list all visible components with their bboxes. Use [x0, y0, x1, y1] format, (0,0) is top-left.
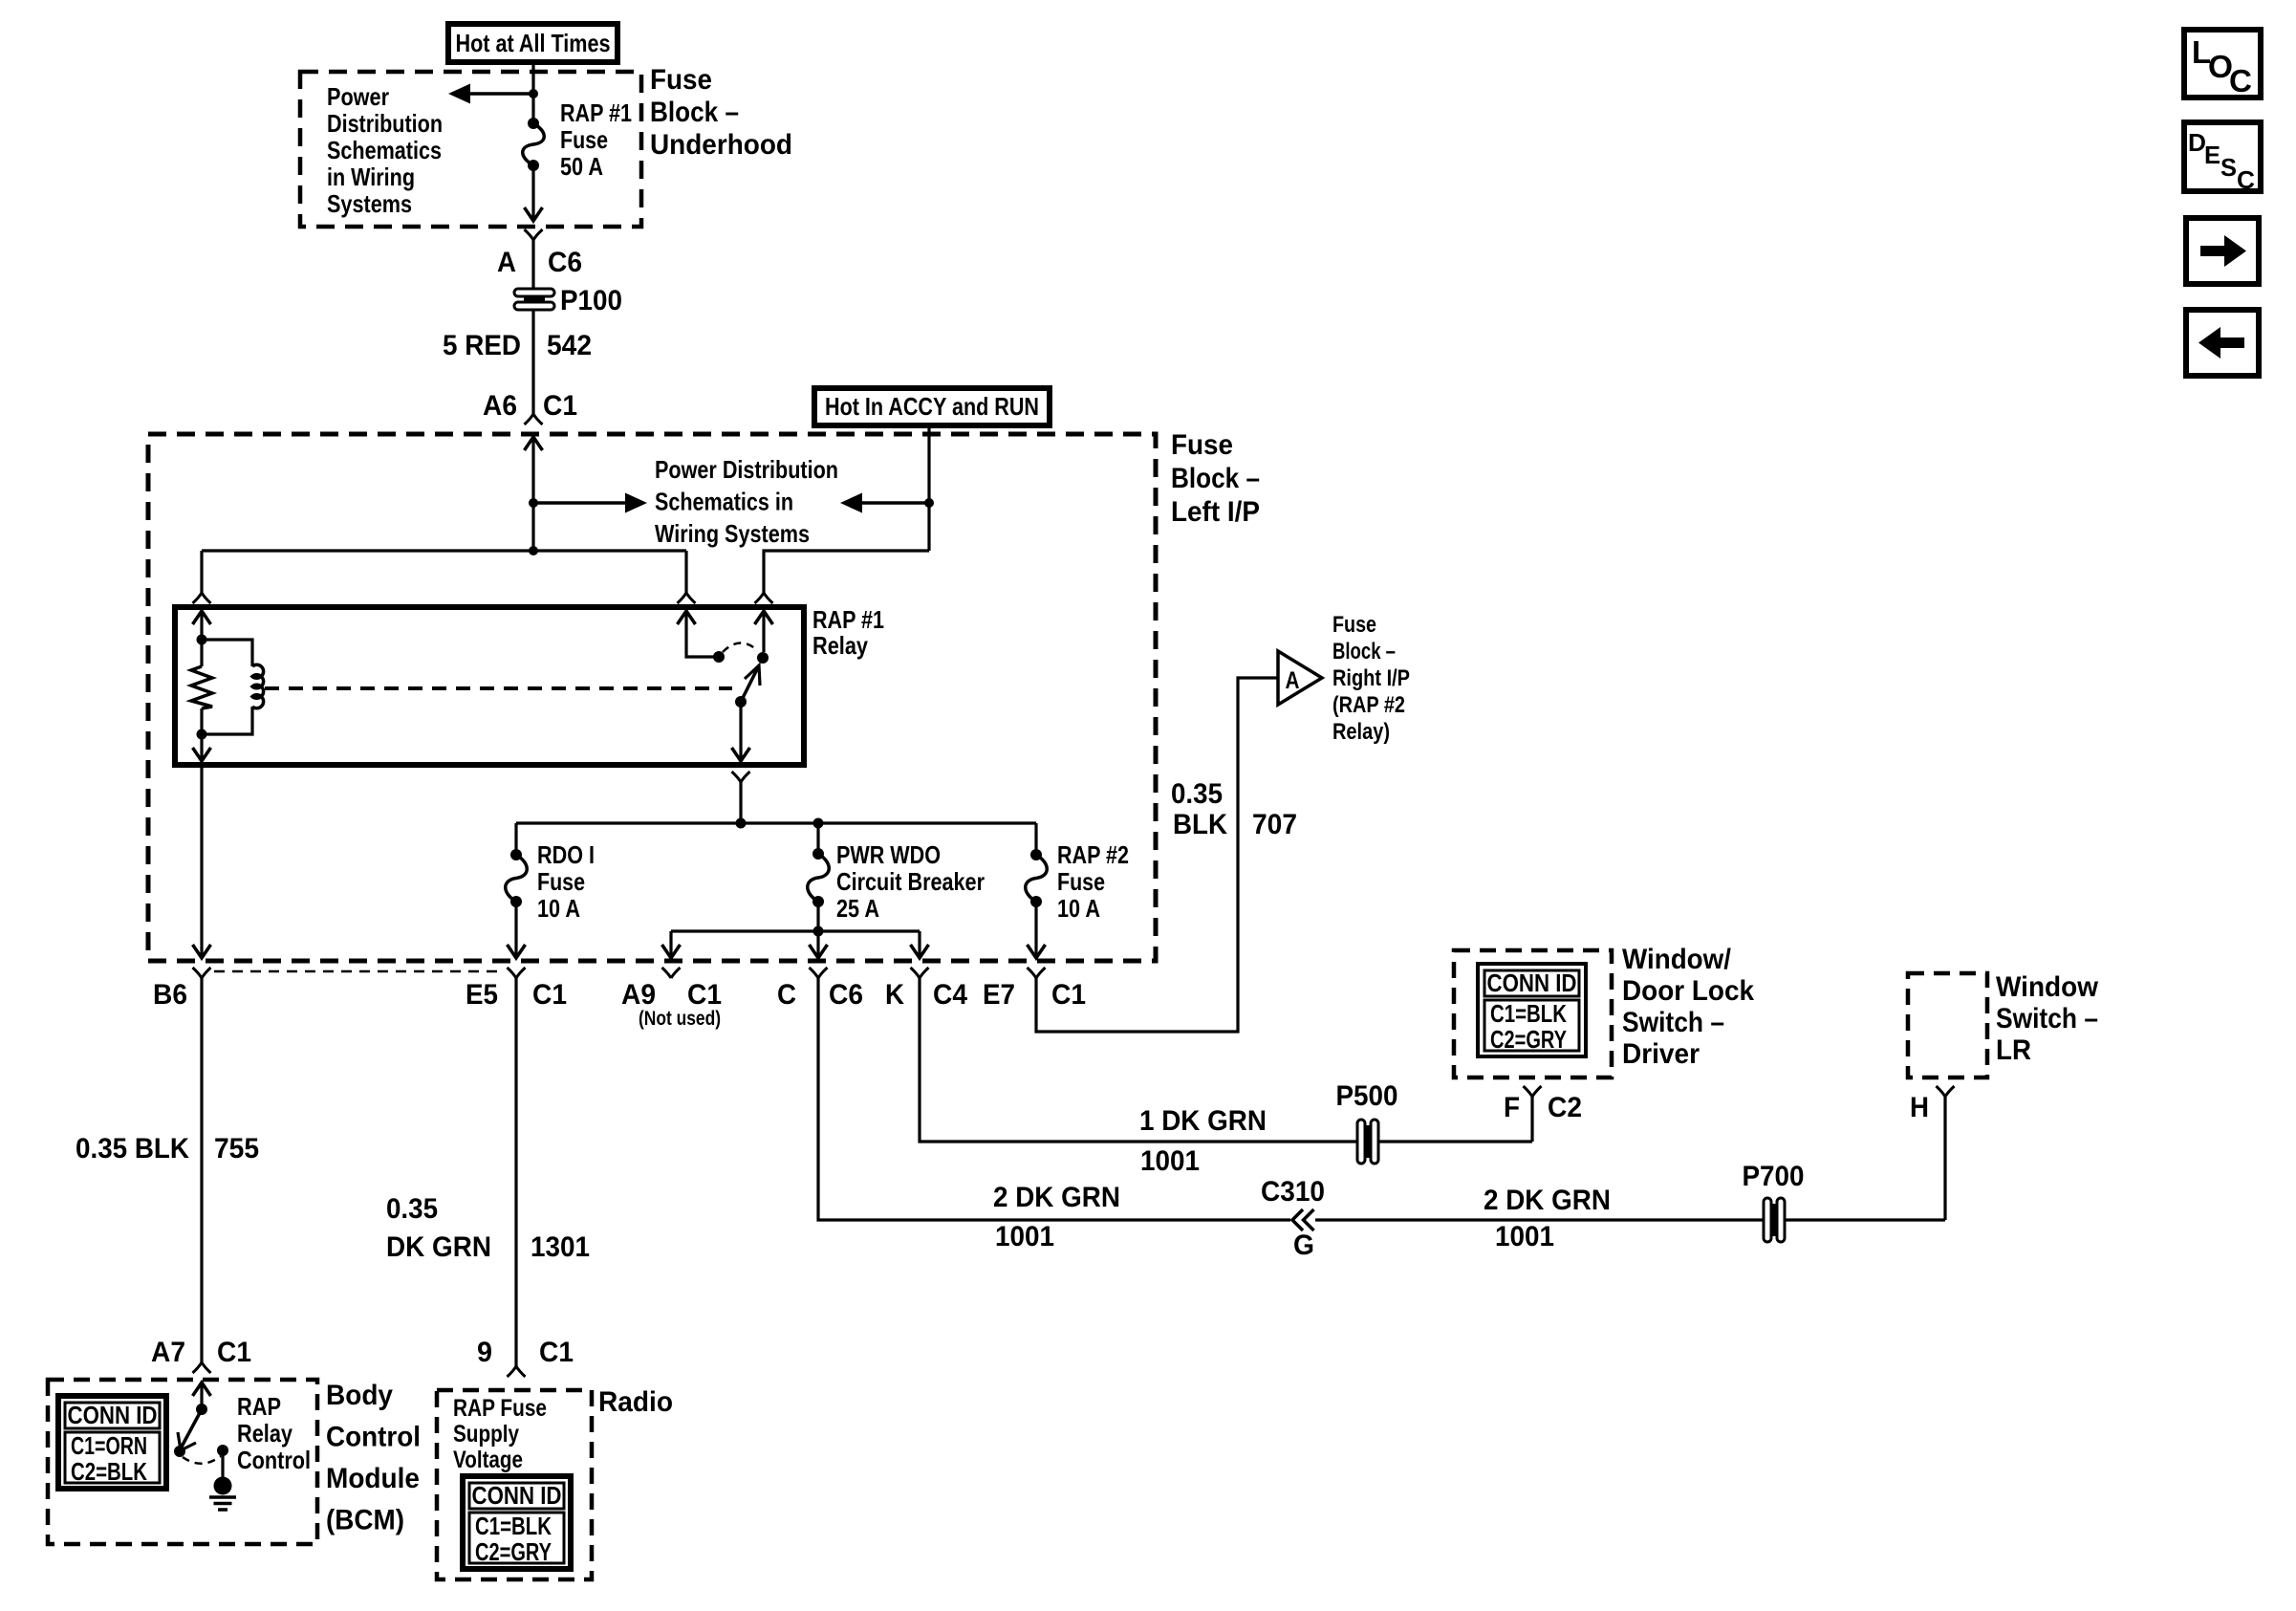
svg-text:P100: P100: [560, 285, 622, 316]
svg-text:A: A: [1286, 667, 1300, 694]
wire: A9 drop: [669, 931, 672, 957]
svg-text:Block –: Block –: [650, 97, 739, 128]
junction node breaker output tee: [813, 926, 824, 937]
svg-text:0.35: 0.35: [386, 1193, 438, 1225]
svg-text:C1: C1: [543, 390, 577, 422]
wire: fuse feed bus: [516, 821, 1036, 824]
connector fork K: [911, 968, 929, 978]
svg-text:A: A: [497, 247, 516, 278]
wire: left drop to relay coil: [200, 551, 203, 593]
svg-text:C: C: [2229, 63, 2252, 98]
connector fork C: [810, 968, 828, 978]
svg-text:Fuse: Fuse: [537, 867, 585, 896]
arrow down at K exit: [911, 945, 929, 958]
svg-text:Body: Body: [326, 1380, 393, 1411]
wire: ACCY horizontal to relay contact: [764, 551, 929, 593]
svg-text:Voltage: Voltage: [453, 1447, 523, 1473]
nav icon LOC: [2184, 30, 2261, 98]
radio dashed box: [437, 1390, 592, 1579]
fuse block underhood dashed box: [300, 72, 641, 227]
svg-text:DK GRN: DK GRN: [386, 1231, 491, 1263]
svg-text:C2=BLK: C2=BLK: [71, 1457, 147, 1486]
svg-text:Supply: Supply: [453, 1421, 519, 1448]
connector fork H below LR switch: [1937, 1086, 1955, 1097]
power label box: Hot at All Times: [448, 24, 617, 62]
svg-text:C1: C1: [1051, 979, 1086, 1011]
svg-text:K: K: [885, 979, 904, 1011]
svg-text:Fuse: Fuse: [650, 64, 712, 96]
wire: drop to relay common: [684, 551, 687, 593]
wire: C/C6 to C310 (2 DK GRN 1001): [818, 978, 1290, 1220]
svg-text:CONN ID: CONN ID: [472, 1481, 562, 1510]
svg-text:Schematics in: Schematics in: [655, 488, 793, 516]
wire: breaker output: [816, 902, 819, 957]
connector fork B6: [193, 968, 211, 978]
svg-text:C: C: [777, 979, 796, 1011]
wire: B6 drop from relay: [200, 765, 203, 957]
relay coil (inductor): [202, 640, 252, 666]
svg-text:Fuse: Fuse: [1332, 612, 1376, 638]
svg-text:Radio: Radio: [598, 1386, 673, 1418]
svg-text:CONN ID: CONN ID: [68, 1401, 158, 1429]
ground symbol: [214, 1477, 232, 1495]
svg-text:2 DK GRN: 2 DK GRN: [993, 1182, 1120, 1213]
arrow down at underhood box exit: [525, 207, 543, 221]
svg-text:Block –: Block –: [1332, 639, 1396, 664]
svg-text:Fuse: Fuse: [1171, 429, 1233, 461]
BCM CONN ID table: [58, 1396, 166, 1489]
svg-text:in Wiring: in Wiring: [327, 163, 415, 191]
wire: ACCY feed down from label box: [927, 425, 930, 551]
svg-text:707: 707: [1252, 809, 1297, 840]
connector fork A7/C1 into BCM: [193, 1362, 211, 1373]
svg-text:Wiring Systems: Wiring Systems: [655, 519, 810, 548]
arrow up inside BCM at A7: [193, 1382, 211, 1396]
svg-text:Window/: Window/: [1622, 944, 1732, 975]
svg-text:Right I/P: Right I/P: [1332, 665, 1410, 691]
svg-text:Power: Power: [327, 82, 389, 111]
wire: K drop: [918, 931, 921, 957]
arrow up into left IP box at A6: [525, 437, 543, 450]
wire: RDO I fuse output: [514, 902, 517, 957]
svg-text:C: C: [2237, 165, 2255, 194]
radio CONN ID table: [463, 1476, 571, 1569]
svg-text:C1: C1: [687, 979, 722, 1011]
wire: RAP #2 fuse output: [1034, 902, 1037, 957]
svg-text:5 RED: 5 RED: [443, 330, 521, 361]
svg-text:CONN ID: CONN ID: [1487, 969, 1577, 997]
circuit breaker PWR WDO 25A: [816, 823, 819, 854]
connector fork A9 (not used): [662, 968, 681, 978]
fuse RAP #1 50A (underhood): [528, 118, 539, 129]
svg-text:A7: A7: [151, 1337, 185, 1368]
relay coil-top junction: [197, 635, 207, 645]
svg-text:RAP #1: RAP #1: [560, 98, 632, 127]
svg-text:Switch –: Switch –: [1622, 1007, 1724, 1038]
svg-text:C310: C310: [1261, 1176, 1325, 1208]
svg-text:Block –: Block –: [1171, 463, 1260, 494]
wire: K/C4 to driver switch (1 DK GRN 1001): [920, 978, 1356, 1142]
off-page triangle connector A: [1278, 651, 1322, 705]
svg-text:(BCM): (BCM): [326, 1505, 404, 1536]
junction node at feed tee: [529, 546, 538, 555]
nav icon back arrow: [2186, 310, 2259, 376]
fork into relay at coil feed: [193, 593, 211, 603]
svg-text:Left I/P: Left I/P: [1171, 496, 1260, 528]
fuse RDO I 10A: [510, 849, 522, 860]
fork into relay at NO contact: [755, 593, 773, 603]
svg-text:C2: C2: [1548, 1092, 1582, 1123]
svg-text:Module: Module: [326, 1463, 420, 1494]
svg-text:2 DK GRN: 2 DK GRN: [1484, 1185, 1611, 1216]
svg-text:10 A: 10 A: [537, 894, 580, 923]
wire: 0.35 BLK 707 from E7 to right IP: [1036, 678, 1277, 1032]
svg-text:Systems: Systems: [327, 189, 412, 218]
svg-text:C2=GRY: C2=GRY: [1490, 1025, 1567, 1054]
svg-text:1001: 1001: [1495, 1221, 1554, 1252]
relay resistor: [200, 640, 203, 666]
svg-text:BLK: BLK: [1173, 809, 1227, 840]
svg-text:1001: 1001: [1140, 1145, 1200, 1177]
svg-text:755: 755: [214, 1133, 259, 1165]
wire: horizontal feed bus to relay: [202, 549, 686, 552]
svg-text:E7: E7: [983, 979, 1015, 1011]
svg-text:Schematics: Schematics: [327, 136, 442, 164]
arrow left to power distribution schematics: [856, 501, 929, 505]
nav icon forward arrow: [2186, 218, 2259, 284]
BCM switch arm (RAP relay control driver): [181, 1409, 202, 1448]
svg-text:C6: C6: [829, 979, 863, 1011]
svg-text:C4: C4: [933, 979, 967, 1011]
wire: 0.35 DK GRN 1301 to radio: [514, 978, 517, 1366]
svg-text:B6: B6: [153, 979, 187, 1011]
svg-text:LR: LR: [1996, 1034, 2031, 1066]
svg-text:Switch –: Switch –: [1996, 1003, 2098, 1034]
svg-text:P500: P500: [1336, 1080, 1398, 1112]
same-connector dashed link B6 to E5: [214, 970, 503, 973]
wire: battery feed into underhood box: [531, 62, 534, 123]
wire: fuse output down: [531, 165, 534, 220]
svg-text:A9: A9: [621, 979, 656, 1011]
connector fork A6/C1 into left IP box: [525, 414, 543, 425]
arrow right to power distribution schematics: [533, 501, 631, 505]
arrow up inside relay (NC pin): [678, 611, 696, 624]
svg-text:C1: C1: [217, 1337, 251, 1368]
svg-text:(Not used): (Not used): [639, 1008, 721, 1030]
connector fork A/C6 below underhood box: [525, 229, 543, 240]
svg-text:E: E: [2204, 141, 2220, 169]
fork below relay output: [732, 772, 750, 782]
svg-text:RAP Fuse: RAP Fuse: [453, 1395, 547, 1422]
nav icon DESC: [2184, 122, 2261, 191]
arrow down at E7 exit: [1028, 945, 1046, 958]
svg-text:C1: C1: [539, 1337, 574, 1368]
wire: relay output down: [739, 702, 742, 761]
junction node: [529, 89, 538, 98]
svg-text:C1=BLK: C1=BLK: [1490, 999, 1567, 1028]
svg-text:RDO I: RDO I: [537, 840, 595, 869]
svg-text:C1=ORN: C1=ORN: [71, 1431, 147, 1460]
svg-text:Fuse: Fuse: [1057, 867, 1105, 896]
junction node on feed: [529, 498, 538, 508]
wire: 5 RED 542 segment: [531, 310, 534, 415]
arrow down at E5 exit: [508, 945, 526, 958]
junction node bus to breaker: [813, 818, 824, 829]
arrow down inside relay (coil pin out): [200, 734, 203, 761]
svg-text:1 DK GRN: 1 DK GRN: [1139, 1105, 1267, 1137]
svg-text:Relay: Relay: [812, 631, 868, 660]
svg-text:Hot In ACCY and RUN: Hot In ACCY and RUN: [825, 392, 1039, 421]
connector fork E7: [1028, 968, 1046, 978]
fuse RAP #2 10A: [1030, 849, 1042, 860]
svg-text:Circuit Breaker: Circuit Breaker: [836, 867, 985, 896]
wire: not-used / K bus: [671, 929, 920, 932]
svg-text:P700: P700: [1743, 1161, 1805, 1192]
svg-text:S: S: [2220, 153, 2237, 182]
svg-text:(RAP #2: (RAP #2: [1332, 692, 1405, 718]
connector P100 inline: [514, 289, 554, 296]
power label box: Hot In ACCY and RUN: [814, 388, 1050, 425]
BCM switch top node: [196, 1404, 207, 1415]
svg-text:0.35 BLK: 0.35 BLK: [76, 1133, 189, 1165]
svg-text:Driver: Driver: [1622, 1038, 1700, 1070]
svg-text:C1=BLK: C1=BLK: [475, 1512, 552, 1540]
svg-text:RAP: RAP: [237, 1392, 281, 1421]
arrow down at C exit: [810, 945, 828, 958]
fork into relay at common: [678, 593, 696, 603]
junction node on ACCY feed: [924, 498, 934, 508]
relay switch arm: [741, 665, 759, 702]
relay NC contact: [713, 651, 725, 663]
svg-text:Control: Control: [326, 1422, 421, 1453]
arrow up inside relay (NO pin): [755, 611, 773, 624]
driver switch CONN ID table: [1478, 964, 1586, 1056]
svg-text:A6: A6: [483, 390, 517, 422]
svg-text:Window: Window: [1996, 971, 2099, 1003]
relay RAP #1 box: [175, 607, 804, 765]
svg-text:542: 542: [547, 330, 592, 361]
svg-text:Relay): Relay): [1332, 719, 1390, 745]
svg-text:0.35: 0.35: [1171, 778, 1223, 810]
connector P700 inline: [1764, 1198, 1771, 1242]
svg-text:Hot at All Times: Hot at All Times: [456, 29, 611, 57]
arrow down inside relay (output pin): [732, 748, 750, 761]
svg-text:C1: C1: [532, 979, 567, 1011]
svg-text:1301: 1301: [531, 1231, 590, 1263]
relay coil-bottom junction: [197, 729, 207, 740]
svg-text:10 A: 10 A: [1057, 894, 1100, 923]
svg-text:C2=GRY: C2=GRY: [475, 1537, 552, 1566]
BCM switch lower contact: [174, 1446, 185, 1457]
svg-text:1001: 1001: [995, 1221, 1054, 1252]
connector C310 chevrons: [1292, 1209, 1314, 1230]
svg-text:25 A: 25 A: [836, 894, 879, 923]
arrow down at B6 exit: [193, 945, 211, 958]
wire: C310 to P700 (2 DK GRN 1001): [1315, 1218, 1763, 1221]
svg-text:RAP #1: RAP #1: [812, 605, 884, 634]
wire: bus left drop to RDO I fuse: [514, 823, 517, 855]
svg-text:9: 9: [477, 1337, 492, 1368]
connector fork E5: [508, 968, 526, 978]
junction node relay output to bus: [736, 818, 747, 829]
svg-text:Relay: Relay: [237, 1419, 292, 1448]
relay switch alternate-position dashed arc: [723, 642, 757, 652]
connector P500 inline: [1357, 1120, 1365, 1164]
fuse block left IP dashed box: [148, 434, 1156, 961]
relay pivot node: [735, 696, 747, 708]
BCM ground contact node: [217, 1445, 228, 1456]
window switch LR dashed box: [1908, 973, 1987, 1078]
relay control dashed line: [265, 686, 732, 690]
svg-text:F: F: [1504, 1092, 1520, 1123]
wire: to BCM ground: [221, 1450, 224, 1480]
svg-text:E5: E5: [466, 979, 498, 1011]
window/door lock switch driver dashed box: [1454, 950, 1612, 1078]
connector fork F/C2 below driver switch: [1524, 1086, 1542, 1097]
svg-text:PWR WDO: PWR WDO: [836, 840, 941, 869]
svg-text:Control: Control: [237, 1446, 311, 1474]
svg-text:Door Lock: Door Lock: [1622, 975, 1754, 1007]
body control module dashed box: [48, 1380, 317, 1544]
BCM switch dashed arc: [183, 1456, 221, 1464]
svg-text:Distribution: Distribution: [327, 109, 443, 138]
svg-text:RAP #2: RAP #2: [1057, 840, 1129, 869]
arrow to power distribution schematics (left): [465, 92, 533, 96]
arrow down at A9 exit: [662, 945, 681, 958]
relay NO contact: [757, 652, 769, 664]
svg-text:G: G: [1293, 1230, 1314, 1261]
wire: main feed inside left IP: [531, 437, 534, 551]
connector fork 9/C1 into radio: [508, 1366, 526, 1377]
svg-text:Underhood: Underhood: [650, 129, 792, 161]
wire: 0.35 BLK 755 to BCM: [200, 978, 203, 1363]
svg-text:Power Distribution: Power Distribution: [655, 455, 838, 484]
svg-text:50 A: 50 A: [560, 152, 603, 181]
wire: bus right drop to RAP #2 fuse: [1034, 823, 1037, 855]
svg-text:Fuse: Fuse: [560, 125, 608, 154]
arrow up inside relay (coil pin): [193, 611, 211, 624]
svg-text:C6: C6: [548, 247, 582, 278]
svg-text:H: H: [1910, 1092, 1929, 1123]
